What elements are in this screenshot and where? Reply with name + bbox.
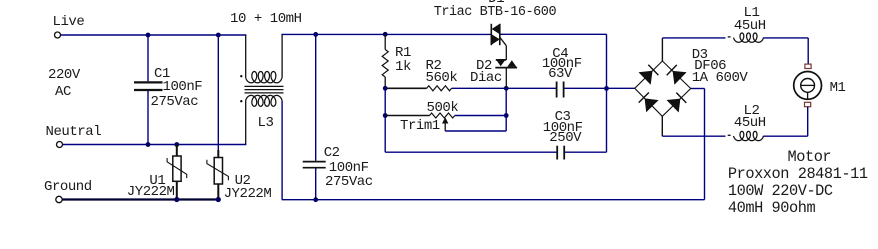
wire C2 lower lead <box>315 169 317 200</box>
label 'C4' <box>552 47 568 61</box>
label 'AC' <box>55 85 71 99</box>
wire 500k right lead <box>455 115 506 117</box>
label '1k' <box>395 60 411 74</box>
wire C2 upper lead <box>315 34 317 160</box>
lead U2 bottom <box>217 184 219 200</box>
triac D1 <box>490 24 492 45</box>
wire bottom rail <box>282 199 705 201</box>
potentiometer 500k Trim1 <box>430 113 455 118</box>
label 'C1' <box>154 67 170 81</box>
L3 phase dot bottom <box>240 100 242 102</box>
inductor L2 <box>734 131 764 140</box>
wire bridge to L2 <box>662 135 725 137</box>
bridge diode upper-right <box>673 71 687 85</box>
node C1 top <box>146 33 151 38</box>
node C2 top <box>313 32 318 37</box>
wire C3 row riser <box>606 88 608 152</box>
label 'C3' <box>555 110 571 124</box>
bridge diode lower-left <box>645 98 659 112</box>
label '40mH 90ohm' <box>728 201 815 216</box>
capacitor C1 plates <box>134 81 163 83</box>
capacitor C4 plates <box>556 82 558 98</box>
node C2 bottom <box>313 197 318 202</box>
label '45uH' <box>734 19 766 33</box>
L3 core lines <box>245 85 284 87</box>
node C1 bottom <box>146 142 151 147</box>
label 'R1' <box>395 46 411 60</box>
wire triac out drop <box>606 34 608 88</box>
label 'D3' <box>692 48 708 62</box>
wire C3 row left <box>385 151 556 153</box>
wire node to bridge left <box>607 87 635 89</box>
label 'U1' <box>149 174 165 188</box>
terminal Neutral <box>57 142 63 148</box>
node 500k left <box>383 113 388 118</box>
label 'JY222M' <box>224 187 272 201</box>
wire Live rail <box>61 34 247 36</box>
label 'R2' <box>426 59 442 73</box>
varistor U2 body <box>214 158 222 185</box>
wire top rail to triac <box>281 33 491 35</box>
terminal Live <box>55 32 61 38</box>
node C4 right <box>604 86 609 91</box>
inductor L3 top winding <box>246 72 282 83</box>
capacitor C3 plates <box>556 146 558 160</box>
label 'Ground' <box>44 180 92 194</box>
label '560k' <box>426 71 458 85</box>
motor M1 body <box>794 72 822 100</box>
capacitor C2 plates <box>303 161 326 163</box>
bridge diode upper-left <box>639 71 653 85</box>
label '220V' <box>48 68 80 82</box>
label 'D2' <box>476 59 492 73</box>
wire U2 tap vertical <box>217 35 219 150</box>
wire L3 primary left lead <box>245 35 247 77</box>
wire C3 row right <box>565 151 607 153</box>
wire C4 to node <box>564 87 606 89</box>
wire diac node drop <box>505 88 507 131</box>
node U1 ground <box>174 197 179 202</box>
label '500k' <box>427 101 459 115</box>
wire R2 to diac node <box>452 87 507 89</box>
label 'Motor' <box>788 150 832 165</box>
wire Ground rail <box>62 198 218 200</box>
label '100nF' <box>329 161 369 175</box>
label 'DF06' <box>694 59 726 73</box>
label 'Neutral' <box>46 125 102 139</box>
diac top lead <box>505 46 507 61</box>
label 'U2' <box>235 174 251 188</box>
wire 500k lead <box>385 115 429 117</box>
label 'M1' <box>830 81 846 95</box>
motor M1 top terminal <box>805 64 811 68</box>
L3 phase dot top <box>240 75 242 77</box>
label 'JY222M' <box>127 185 175 199</box>
node U2 ground <box>216 197 221 202</box>
label 'Proxxon 28481-11' <box>728 167 868 182</box>
wire diac node to C4 <box>506 87 556 89</box>
label '275Vac' <box>151 95 199 109</box>
wire wiper return <box>445 130 506 132</box>
node R1 top <box>383 32 388 37</box>
label '1A 600V' <box>692 71 748 85</box>
triac gate lead <box>500 38 506 46</box>
lead U2 top <box>217 150 219 158</box>
wire L3 primary right lead up <box>281 34 283 77</box>
label '100W 220V-DC' <box>728 184 833 199</box>
label '100nF' <box>163 80 203 94</box>
inductor L1 <box>734 33 764 42</box>
resistor R1 <box>382 50 388 78</box>
node 500k right <box>504 113 509 118</box>
bridge plus lead <box>661 38 663 61</box>
lead U1 bottom <box>176 181 178 199</box>
label '275Vac' <box>325 175 373 189</box>
resistor R2 <box>427 86 452 91</box>
label '100nF' <box>543 121 583 135</box>
wire L3 secondary left lead <box>245 101 247 145</box>
wire C1 upper lead <box>147 35 149 81</box>
wire motor top drop <box>807 38 809 64</box>
label '63V' <box>548 67 572 81</box>
label 'Trim1' <box>400 119 440 133</box>
node diac bottom <box>504 86 509 91</box>
wire motor bottom drop <box>807 107 809 136</box>
label 'C2' <box>324 146 340 160</box>
label '250V' <box>549 131 581 145</box>
label '100nF' <box>542 57 582 71</box>
varistor U2 diagonal <box>207 160 229 180</box>
diac bottom lead <box>505 68 507 89</box>
label 'Triac BTB-16-600' <box>434 6 556 20</box>
label '45uH' <box>734 116 766 130</box>
label 'Diac' <box>470 71 502 85</box>
wire Neutral rail <box>63 144 247 146</box>
wire L1 to motor <box>763 37 808 39</box>
inductor L2 lead dash <box>728 134 731 136</box>
label 'L1' <box>744 6 760 20</box>
lead U1 top <box>176 145 178 157</box>
varistor U1 body <box>173 156 181 181</box>
inductor L3 bottom winding <box>246 95 282 106</box>
node U2 top tap <box>216 33 221 38</box>
wire L2 to motor <box>763 135 808 137</box>
bridge minus lead <box>661 116 663 136</box>
terminal Ground <box>56 196 62 202</box>
label 'L3' <box>258 116 274 130</box>
wire C1 lower lead <box>147 91 149 145</box>
bridge diode lower-right <box>667 99 681 113</box>
varistor U1 diagonal <box>167 158 187 178</box>
label 'L2' <box>744 104 760 118</box>
Trim1 wiper arrow <box>444 123 446 132</box>
wire C3 row drop <box>384 116 386 153</box>
wire bridge to L1 <box>662 37 725 39</box>
label 'Live' <box>53 15 85 29</box>
motor M1 bottom terminal <box>805 102 811 106</box>
wire L3 secondary right lead down <box>281 101 283 200</box>
bridge D3 outline <box>635 61 691 116</box>
node R1 bottom <box>383 86 388 91</box>
inductor L1 lead dash <box>728 36 731 38</box>
lead R1 bottom <box>384 77 386 88</box>
diac D2 <box>496 59 506 61</box>
node U1 top <box>174 142 179 147</box>
wire triac out <box>500 33 607 35</box>
lead R1 top <box>384 34 386 49</box>
wire R2 row left <box>385 87 427 89</box>
wire bridge right stub <box>691 88 705 90</box>
wire bottom rail riser to bridge <box>704 89 706 200</box>
wire 500k row left <box>384 88 386 115</box>
label 'D1' <box>488 0 504 6</box>
label '10 + 10mH' <box>230 12 302 26</box>
